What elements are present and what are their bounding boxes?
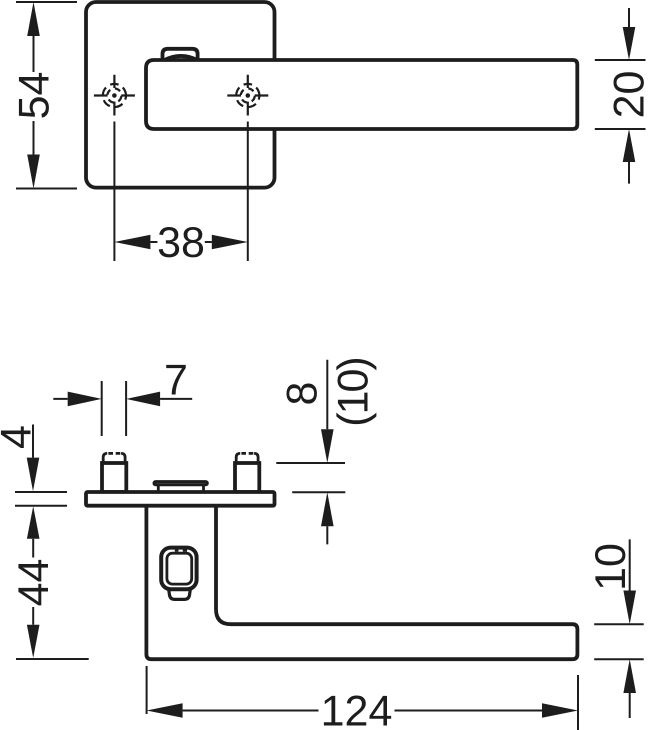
dimension 10 (lever bar thickness) <box>587 539 644 718</box>
dimension 54 (left of rosette) <box>10 2 77 189</box>
grub screw detail outer ring <box>161 548 196 590</box>
lever bar (front view) <box>146 60 577 129</box>
leader line from left crosshair <box>113 122 115 262</box>
leader line from right crosshair <box>247 122 249 262</box>
dimension 38 (between hole marks) <box>114 219 247 267</box>
dimension 20 (right of lever bar) <box>595 8 648 184</box>
svg-text:44: 44 <box>10 559 58 607</box>
lever neck bump on rosette <box>163 49 198 61</box>
svg-text:10: 10 <box>587 543 635 591</box>
grub screw detail inner <box>167 553 192 584</box>
svg-text:54: 54 <box>10 72 58 120</box>
screw post left (side view) <box>102 453 126 492</box>
crosshair hole mark left <box>94 75 135 116</box>
dimension 8 (10) (post projection) <box>276 358 377 544</box>
svg-text:8: 8 <box>278 382 326 406</box>
dimension 7 (post width) <box>53 357 192 437</box>
svg-text:124: 124 <box>321 688 393 730</box>
crosshair hole mark right <box>227 75 268 116</box>
lever neck top arc <box>164 56 198 60</box>
svg-text:38: 38 <box>157 219 205 267</box>
grub screw detail foot <box>168 586 191 599</box>
svg-text:(10): (10) <box>330 358 378 426</box>
handle outline neck + lever (side view) <box>146 504 577 659</box>
svg-text:4: 4 <box>0 425 41 449</box>
rosette (front view, rounded square 54x54) <box>86 2 275 188</box>
svg-text:20: 20 <box>606 71 648 119</box>
svg-text:7: 7 <box>164 357 188 405</box>
spindle cover cap (side view) <box>154 482 207 492</box>
dimension 124 (lever length) <box>147 666 578 730</box>
grub screw detail top marks <box>175 549 187 551</box>
rosette plate (side view) <box>86 492 275 506</box>
dimension 44 (plate to lever bottom) <box>10 506 89 659</box>
screw post right (side view) <box>235 453 259 492</box>
dimension 4 (plate thickness) <box>0 425 67 506</box>
